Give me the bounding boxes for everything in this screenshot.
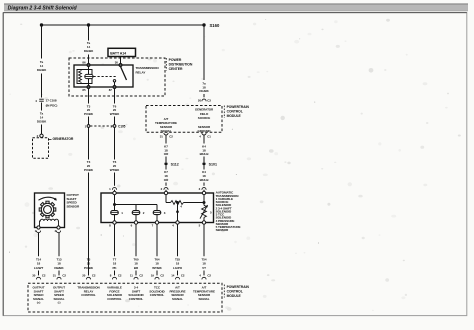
- wire PCM to S112: [165, 135, 167, 144]
- svg-text:C2: C2: [139, 274, 143, 278]
- svg-text:CONTROL: CONTROL: [150, 293, 165, 297]
- automatic transmission box: [101, 193, 214, 223]
- transmission bottom pin 5: [202, 221, 205, 224]
- wire w3 above C105: [88, 117, 90, 125]
- wire generator feed upper: [41, 25, 43, 59]
- wire to PCM OUTPUT: [58, 233, 60, 257]
- wire relay 85 to PCM (w3) upper: [88, 89, 90, 104]
- svg-text:C2: C2: [160, 274, 164, 278]
- relay armature dashed link: [94, 76, 118, 78]
- svg-text:DG/BK: DG/BK: [84, 49, 94, 53]
- svg-text:POWERTRAIN: POWERTRAIN: [227, 285, 250, 289]
- svg-text:C2: C2: [118, 274, 122, 278]
- wire into PDC: [88, 55, 90, 64]
- svg-text:GENERATOR: GENERATOR: [53, 137, 74, 141]
- svg-text:VT: VT: [202, 266, 206, 270]
- node S101: [202, 162, 205, 165]
- node S160: [202, 23, 205, 26]
- wire relay 87 to C105 (w4): [114, 89, 116, 104]
- wire into PCM connector 11: [135, 271, 137, 276]
- label POWER DISTRIBUTION CENTER: [165, 58, 167, 71]
- connector pin 30 C2: [36, 277, 40, 279]
- transmission pin 3 connector: [202, 188, 206, 190]
- wire into PCM connector 19: [156, 271, 158, 276]
- svg-text:DB/BK: DB/BK: [54, 266, 64, 270]
- svg-text:(IN PDC): (IN PDC): [46, 104, 58, 108]
- wire into PCM connector 14: [177, 271, 179, 276]
- svg-text:C1: C1: [207, 134, 211, 138]
- svg-text:C2: C2: [181, 274, 185, 278]
- relay contact 87 stub: [113, 80, 115, 82]
- svg-text:DISTRIBUTION: DISTRIBUTION: [169, 63, 193, 67]
- svg-text:C2: C2: [207, 274, 211, 278]
- node relay feed junction: [87, 23, 90, 26]
- label GENERATOR: [49, 139, 52, 141]
- svg-text:31: 31: [160, 134, 164, 138]
- transmission bottom pin 4: [176, 221, 179, 224]
- wire S112 down: [165, 166, 167, 170]
- svg-text:SIGNAL: SIGNAL: [199, 297, 210, 301]
- node S112: [164, 162, 167, 165]
- svg-text:30: 30: [32, 274, 36, 278]
- solenoid feed bus inside transmission: [114, 195, 116, 211]
- wire into PCM C3: [203, 94, 205, 97]
- wire w3 below C105: [88, 128, 90, 160]
- fuse BATT A14: [108, 48, 136, 56]
- wire to PCM A/T: [177, 224, 179, 256]
- svg-text:17 C108: 17 C108: [46, 99, 57, 103]
- svg-text:PU/BK: PU/BK: [84, 168, 94, 172]
- transmission bottom pin 8: [113, 221, 116, 224]
- svg-text:C2: C2: [42, 274, 46, 278]
- connector pin 14 C2: [175, 277, 179, 279]
- svg-text:Diagram 2 3-4 Shift Solenoid: Diagram 2 3-4 Shift Solenoid: [8, 5, 78, 11]
- powertrain control module lower (dashed): [28, 283, 222, 312]
- rotation arrow arc: [39, 197, 57, 200]
- wire relay coil feed: [88, 25, 90, 41]
- svg-text:DG/BK: DG/BK: [37, 119, 47, 123]
- wire generator feed lower: [41, 103, 43, 111]
- svg-text:19: 19: [151, 274, 155, 278]
- svg-text:RELAY: RELAY: [136, 70, 147, 74]
- temperature sensor 5 variable resistor: [203, 195, 205, 206]
- connector C108 in-line: [39, 98, 44, 100]
- wire generator feed mid: [41, 74, 43, 98]
- wire w4 to transmission pin 1: [114, 173, 116, 186]
- svg-text:SOURCE: SOURCE: [198, 116, 211, 120]
- svg-text:(-): (-): [58, 300, 61, 304]
- solenoid 3 TCC: [156, 205, 158, 211]
- svg-text:LG/PO: LG/PO: [173, 266, 183, 270]
- svg-text:S101: S101: [209, 162, 217, 166]
- wire PCM ground to S101: [203, 135, 205, 144]
- svg-text:SIGNAL: SIGNAL: [172, 297, 183, 301]
- connector C105: [87, 125, 90, 128]
- connector pin 8 C2: [112, 277, 116, 279]
- svg-text:C3: C3: [207, 98, 211, 102]
- svg-text:BK/LB: BK/LB: [200, 178, 210, 182]
- svg-text:SIGNAL: SIGNAL: [161, 129, 172, 133]
- powertrain control module upper (dashed): [146, 106, 222, 133]
- svg-text:S112: S112: [171, 162, 179, 166]
- svg-text:SENSOR: SENSOR: [67, 204, 81, 208]
- svg-text:85: 85: [82, 88, 86, 92]
- svg-text:PU/BK: PU/BK: [84, 112, 94, 116]
- connector pin 4 C2: [202, 277, 206, 279]
- svg-text:C2: C2: [92, 274, 96, 278]
- connector C3 at PCM: [202, 99, 206, 101]
- wire to PCM A/T: [203, 224, 205, 256]
- wire into PCM connector 20: [88, 271, 90, 276]
- wire into PCM connector 31: [58, 271, 60, 276]
- transmission bottom pin 6: [134, 221, 137, 224]
- connector pin 19 C2: [155, 277, 159, 279]
- output shaft speed sensor box: [35, 193, 65, 228]
- gear icon: [39, 201, 56, 218]
- svg-text:CONTROL: CONTROL: [81, 293, 96, 297]
- connector pin 31 C2: [57, 277, 61, 279]
- svg-text:LG/WT: LG/WT: [34, 266, 44, 270]
- power distribution center (dashed): [69, 58, 165, 96]
- svg-text:CONTROL: CONTROL: [227, 109, 243, 113]
- wire BATT to relay pin 30: [120, 57, 122, 64]
- wire to PCM TCC: [156, 224, 158, 256]
- label POWERTRAIN CONTROL MODULE: [223, 106, 225, 119]
- svg-text:S160: S160: [210, 23, 220, 28]
- relay coil: [77, 70, 92, 84]
- svg-text:WT/BK: WT/BK: [110, 112, 120, 116]
- label POWERTRAIN CONTROL MODULE lower: [223, 285, 225, 298]
- svg-text:20: 20: [198, 98, 202, 102]
- svg-text:POWERTRAIN: POWERTRAIN: [227, 105, 250, 109]
- svg-text:PU/BK: PU/BK: [84, 266, 94, 270]
- PCM connector 4 C1: [202, 133, 206, 135]
- transmission pin 1 connector: [112, 188, 116, 190]
- PCM connector 31 C2: [164, 133, 168, 135]
- svg-text:WT/BK: WT/BK: [110, 168, 120, 172]
- wire w3 long run to PCM connector: [88, 173, 90, 276]
- svg-text:WT/BK: WT/BK: [152, 266, 162, 270]
- resistor 4 branch: [165, 195, 167, 203]
- pressure sensor drop: [176, 201, 179, 204]
- connector pin 20 C2: [86, 277, 90, 279]
- generator (dashed): [33, 138, 49, 159]
- svg-text:C2: C2: [169, 134, 173, 138]
- svg-text:CONTROL: CONTROL: [107, 297, 122, 301]
- svg-text:14: 14: [171, 274, 175, 278]
- wire S101 down: [203, 166, 205, 170]
- wire to generator pin: [41, 125, 43, 135]
- svg-text:30: 30: [115, 61, 119, 65]
- solenoid 2 3-4 shift: [132, 211, 140, 215]
- svg-text:POWER: POWER: [169, 58, 182, 62]
- transmission pin 2 connector: [164, 188, 168, 190]
- svg-text:DG/BK: DG/BK: [199, 89, 209, 93]
- svg-text:DG/BK: DG/BK: [37, 68, 47, 72]
- title bar: [4, 4, 468, 11]
- svg-text:87: 87: [109, 88, 113, 92]
- svg-text:GROUND: GROUND: [198, 129, 212, 133]
- relay pin 30: [119, 64, 122, 67]
- relay pin 86: [87, 64, 90, 67]
- sensor pin 2: [57, 226, 60, 229]
- svg-text:MODULE: MODULE: [227, 114, 242, 118]
- connector pin 11 C2: [134, 277, 138, 279]
- svg-text:BATT A14: BATT A14: [110, 52, 126, 56]
- svg-text:(+): (+): [37, 300, 41, 304]
- svg-text:C2: C2: [62, 274, 66, 278]
- wire S160 to PCM: [203, 27, 205, 81]
- svg-text:CONTROL: CONTROL: [227, 290, 243, 294]
- node left bus junction: [40, 23, 43, 26]
- svg-text:C105: C105: [118, 124, 126, 128]
- relay K1 transmission relay box: [74, 65, 133, 87]
- svg-text:20: 20: [82, 274, 86, 278]
- svg-text:MODULE: MODULE: [227, 294, 242, 298]
- wire into PCM connector 4: [203, 271, 205, 276]
- solenoid 1 variable force: [135, 205, 137, 211]
- svg-text:CENTER: CENTER: [169, 67, 183, 71]
- wire top bus G101 feed: [42, 24, 205, 26]
- svg-text:CONTROL: CONTROL: [129, 297, 144, 301]
- relay pin 87: [113, 86, 116, 89]
- svg-text:86: 86: [82, 61, 86, 65]
- wire w4 below C105: [114, 128, 116, 160]
- svg-text:SENSOR: SENSOR: [216, 228, 229, 232]
- wire to PCM OUTPUT: [38, 233, 40, 257]
- wire into PCM connector 8: [114, 271, 116, 276]
- svg-text:11: 11: [130, 274, 133, 278]
- wire to PCM 3-4: [135, 224, 137, 256]
- generator pin 2: [40, 134, 43, 137]
- wire into PCM connector 30: [38, 271, 40, 276]
- svg-text:TRANSMISSION: TRANSMISSION: [136, 66, 160, 70]
- svg-text:BK/LB: BK/LB: [200, 152, 210, 156]
- transmission bottom pin 7: [155, 221, 158, 224]
- relay switch blade: [121, 67, 127, 81]
- svg-text:31: 31: [53, 274, 57, 278]
- wire to PCM VARIABLE: [114, 224, 116, 256]
- relay pin 85: [87, 86, 90, 89]
- sensor pin 1: [37, 226, 40, 229]
- pickup coil: [40, 219, 59, 227]
